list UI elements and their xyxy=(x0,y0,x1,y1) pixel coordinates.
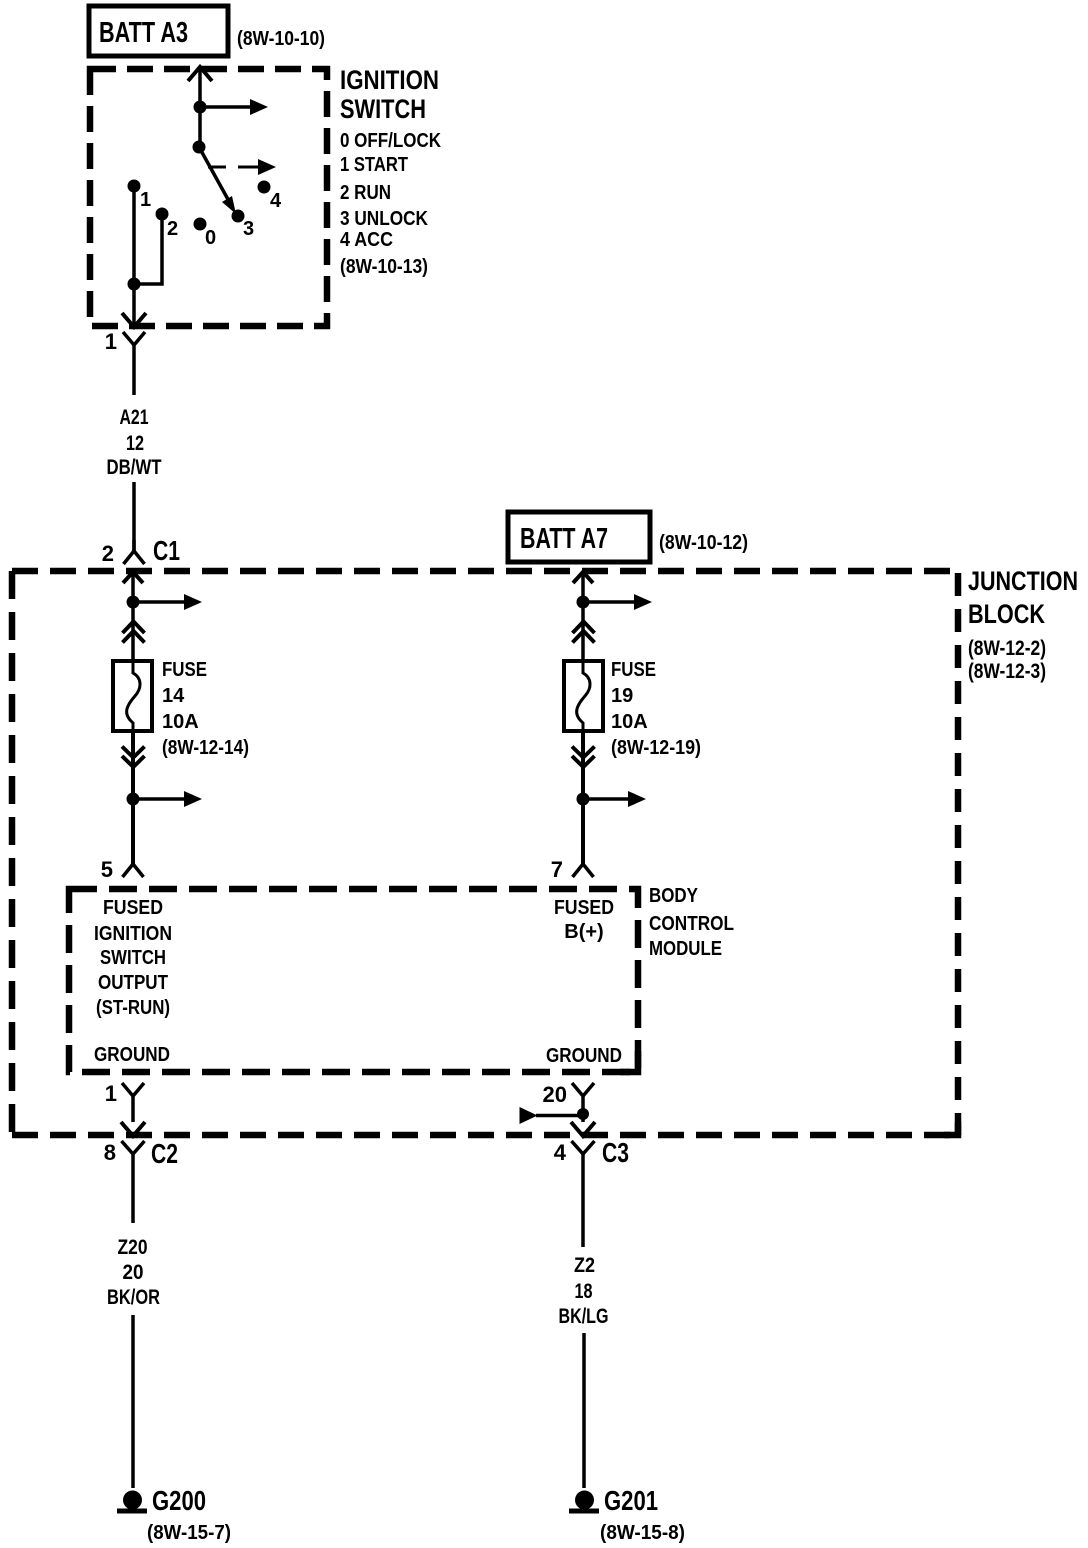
ground G200 xyxy=(123,1491,142,1510)
wire Z20 xyxy=(131,1315,135,1488)
svg-text:B(+): B(+) xyxy=(564,921,603,943)
arrow ground tie xyxy=(536,1114,583,1118)
node st-run feed xyxy=(127,793,140,806)
svg-text:14: 14 xyxy=(162,685,185,707)
svg-text:G201: G201 xyxy=(604,1485,658,1516)
svg-text:10A: 10A xyxy=(611,711,648,733)
wire fuse 14 down xyxy=(131,731,135,864)
arrow feed out right xyxy=(583,600,636,604)
body control module dashed box xyxy=(69,889,638,1072)
svg-text:DB/WT: DB/WT xyxy=(107,456,162,479)
node tie xyxy=(128,278,141,291)
svg-text:Z20: Z20 xyxy=(118,1236,148,1259)
svg-text:0: 0 xyxy=(205,227,216,249)
fuse F14 xyxy=(113,661,152,731)
svg-text:G200: G200 xyxy=(152,1485,206,1516)
battery feed box BATT A3 xyxy=(89,6,228,56)
svg-text:(8W-12-14): (8W-12-14) xyxy=(162,737,249,759)
svg-text:C3: C3 xyxy=(602,1137,629,1168)
svg-text:4 ACC: 4 ACC xyxy=(340,229,393,251)
contact 1 xyxy=(128,180,141,193)
svg-text:BLOCK: BLOCK xyxy=(968,599,1045,629)
svg-text:C2: C2 xyxy=(151,1138,178,1169)
svg-text:7: 7 xyxy=(551,857,563,882)
svg-text:2: 2 xyxy=(167,218,178,240)
wire C1 to fuse 14 xyxy=(131,572,135,661)
svg-text:0 OFF/LOCK: 0 OFF/LOCK xyxy=(340,130,441,152)
fuse F19 xyxy=(564,661,603,731)
svg-text:C1: C1 xyxy=(153,535,180,566)
svg-text:(8W-12-2): (8W-12-2) xyxy=(968,637,1046,660)
wire switch feed to BATT A3 with arrow xyxy=(198,66,202,147)
svg-text:20: 20 xyxy=(123,1261,144,1284)
wire Z2 xyxy=(582,1333,586,1488)
ground G201 xyxy=(575,1491,594,1510)
contact 4 xyxy=(258,181,271,194)
svg-text:(8W-10-13): (8W-10-13) xyxy=(340,256,428,278)
svg-text:4: 4 xyxy=(554,1140,567,1165)
svg-text:JUNCTION: JUNCTION xyxy=(968,566,1078,596)
node pivot xyxy=(193,141,206,154)
ignition switch dashed box xyxy=(90,69,327,326)
svg-text:OUTPUT: OUTPUT xyxy=(98,972,168,994)
svg-text:(8W-10-12): (8W-10-12) xyxy=(659,532,748,554)
svg-text:20: 20 xyxy=(543,1082,567,1107)
junction block dashed box xyxy=(12,568,958,575)
svg-text:(8W-12-3): (8W-12-3) xyxy=(968,660,1046,683)
wire tie to contact 2 xyxy=(134,214,162,284)
svg-text:BATT A7: BATT A7 xyxy=(520,523,608,555)
svg-text:BATT A3: BATT A3 xyxy=(99,17,188,49)
svg-text:3 UNLOCK: 3 UNLOCK xyxy=(340,208,428,230)
battery feed box BATT A7 xyxy=(508,512,650,562)
node ground tie xyxy=(577,1108,589,1120)
arrow feed out right xyxy=(133,797,186,801)
node b+ feed xyxy=(577,793,590,806)
arrow out of switch box xyxy=(122,313,146,327)
svg-text:IGNITION: IGNITION xyxy=(340,65,439,95)
svg-text:(8W-10-10): (8W-10-10) xyxy=(237,28,325,50)
contact 3 xyxy=(232,210,245,223)
svg-text:Z2: Z2 xyxy=(574,1254,595,1277)
chevrons up fuse 14 xyxy=(123,622,145,634)
node fuse14 feed xyxy=(127,596,140,609)
svg-text:SWITCH: SWITCH xyxy=(340,94,426,124)
arrow feed out right xyxy=(200,105,252,109)
connector arrow into junction block BATT A7 xyxy=(573,572,593,583)
wire A21 xyxy=(132,482,136,551)
node switch B+ xyxy=(194,101,207,114)
svg-text:4: 4 xyxy=(270,190,282,212)
switch wiper arm xyxy=(199,147,230,203)
svg-text:BK/OR: BK/OR xyxy=(107,1286,160,1309)
svg-text:SWITCH: SWITCH xyxy=(100,947,166,969)
svg-text:1: 1 xyxy=(105,1081,117,1106)
dashed arrow rotate direction xyxy=(208,166,258,169)
svg-text:(8W-15-7): (8W-15-7) xyxy=(147,1522,231,1544)
arrow feed out right xyxy=(133,600,186,604)
svg-text:2 RUN: 2 RUN xyxy=(340,182,391,204)
svg-text:19: 19 xyxy=(611,685,633,707)
connector arrow into junction block C1 xyxy=(123,572,143,583)
svg-text:1: 1 xyxy=(140,189,151,211)
svg-text:18: 18 xyxy=(575,1280,593,1303)
contact 0 xyxy=(194,218,207,231)
wire A7 to fuse 19 xyxy=(581,572,585,661)
svg-text:GROUND: GROUND xyxy=(94,1044,170,1066)
svg-text:5: 5 xyxy=(101,857,113,882)
svg-text:1 START: 1 START xyxy=(340,154,408,176)
wire fuse 19 down xyxy=(581,731,585,864)
svg-text:IGNITION: IGNITION xyxy=(94,923,172,945)
svg-text:FUSED: FUSED xyxy=(103,897,163,919)
svg-text:(8W-12-19): (8W-12-19) xyxy=(611,737,701,759)
node fuse19 feed xyxy=(577,596,590,609)
chevrons down fuse 14 out xyxy=(122,747,145,758)
svg-text:A21: A21 xyxy=(120,406,149,429)
svg-text:3: 3 xyxy=(243,218,254,240)
svg-text:MODULE: MODULE xyxy=(649,938,722,960)
svg-text:FUSED: FUSED xyxy=(554,897,614,919)
svg-text:FUSE: FUSE xyxy=(611,659,656,681)
svg-text:(ST-RUN): (ST-RUN) xyxy=(96,997,170,1019)
svg-text:1: 1 xyxy=(105,329,117,354)
chevrons down fuse 19 out xyxy=(572,747,595,758)
svg-text:BK/LG: BK/LG xyxy=(559,1305,609,1328)
svg-text:10A: 10A xyxy=(162,711,199,733)
svg-text:FUSE: FUSE xyxy=(162,659,207,681)
arrow feed out right xyxy=(583,797,630,801)
chevrons up fuse 19 xyxy=(573,622,595,634)
svg-text:BODY: BODY xyxy=(649,885,699,907)
svg-text:8: 8 xyxy=(104,1140,116,1165)
svg-text:CONTROL: CONTROL xyxy=(649,913,734,935)
contact 2 xyxy=(156,208,169,221)
svg-text:12: 12 xyxy=(126,432,144,455)
svg-text:(8W-15-8): (8W-15-8) xyxy=(600,1522,685,1544)
svg-text:GROUND: GROUND xyxy=(546,1045,622,1067)
wire contact 1 down xyxy=(132,186,136,313)
svg-text:2: 2 xyxy=(102,541,114,566)
